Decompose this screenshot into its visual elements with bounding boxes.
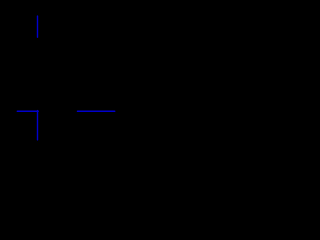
node B (wire bend at corner) — [37, 111, 38, 113]
wire W4 (horizontal wire, right) — [78, 110, 115, 112]
wire W3 (vertical wire, bottom, from node B down) — [37, 111, 39, 140]
wire W2 (horizontal wire, left, into bend node B) — [17, 110, 38, 112]
wire W1 (vertical wire, top, to node A) — [37, 16, 39, 37]
